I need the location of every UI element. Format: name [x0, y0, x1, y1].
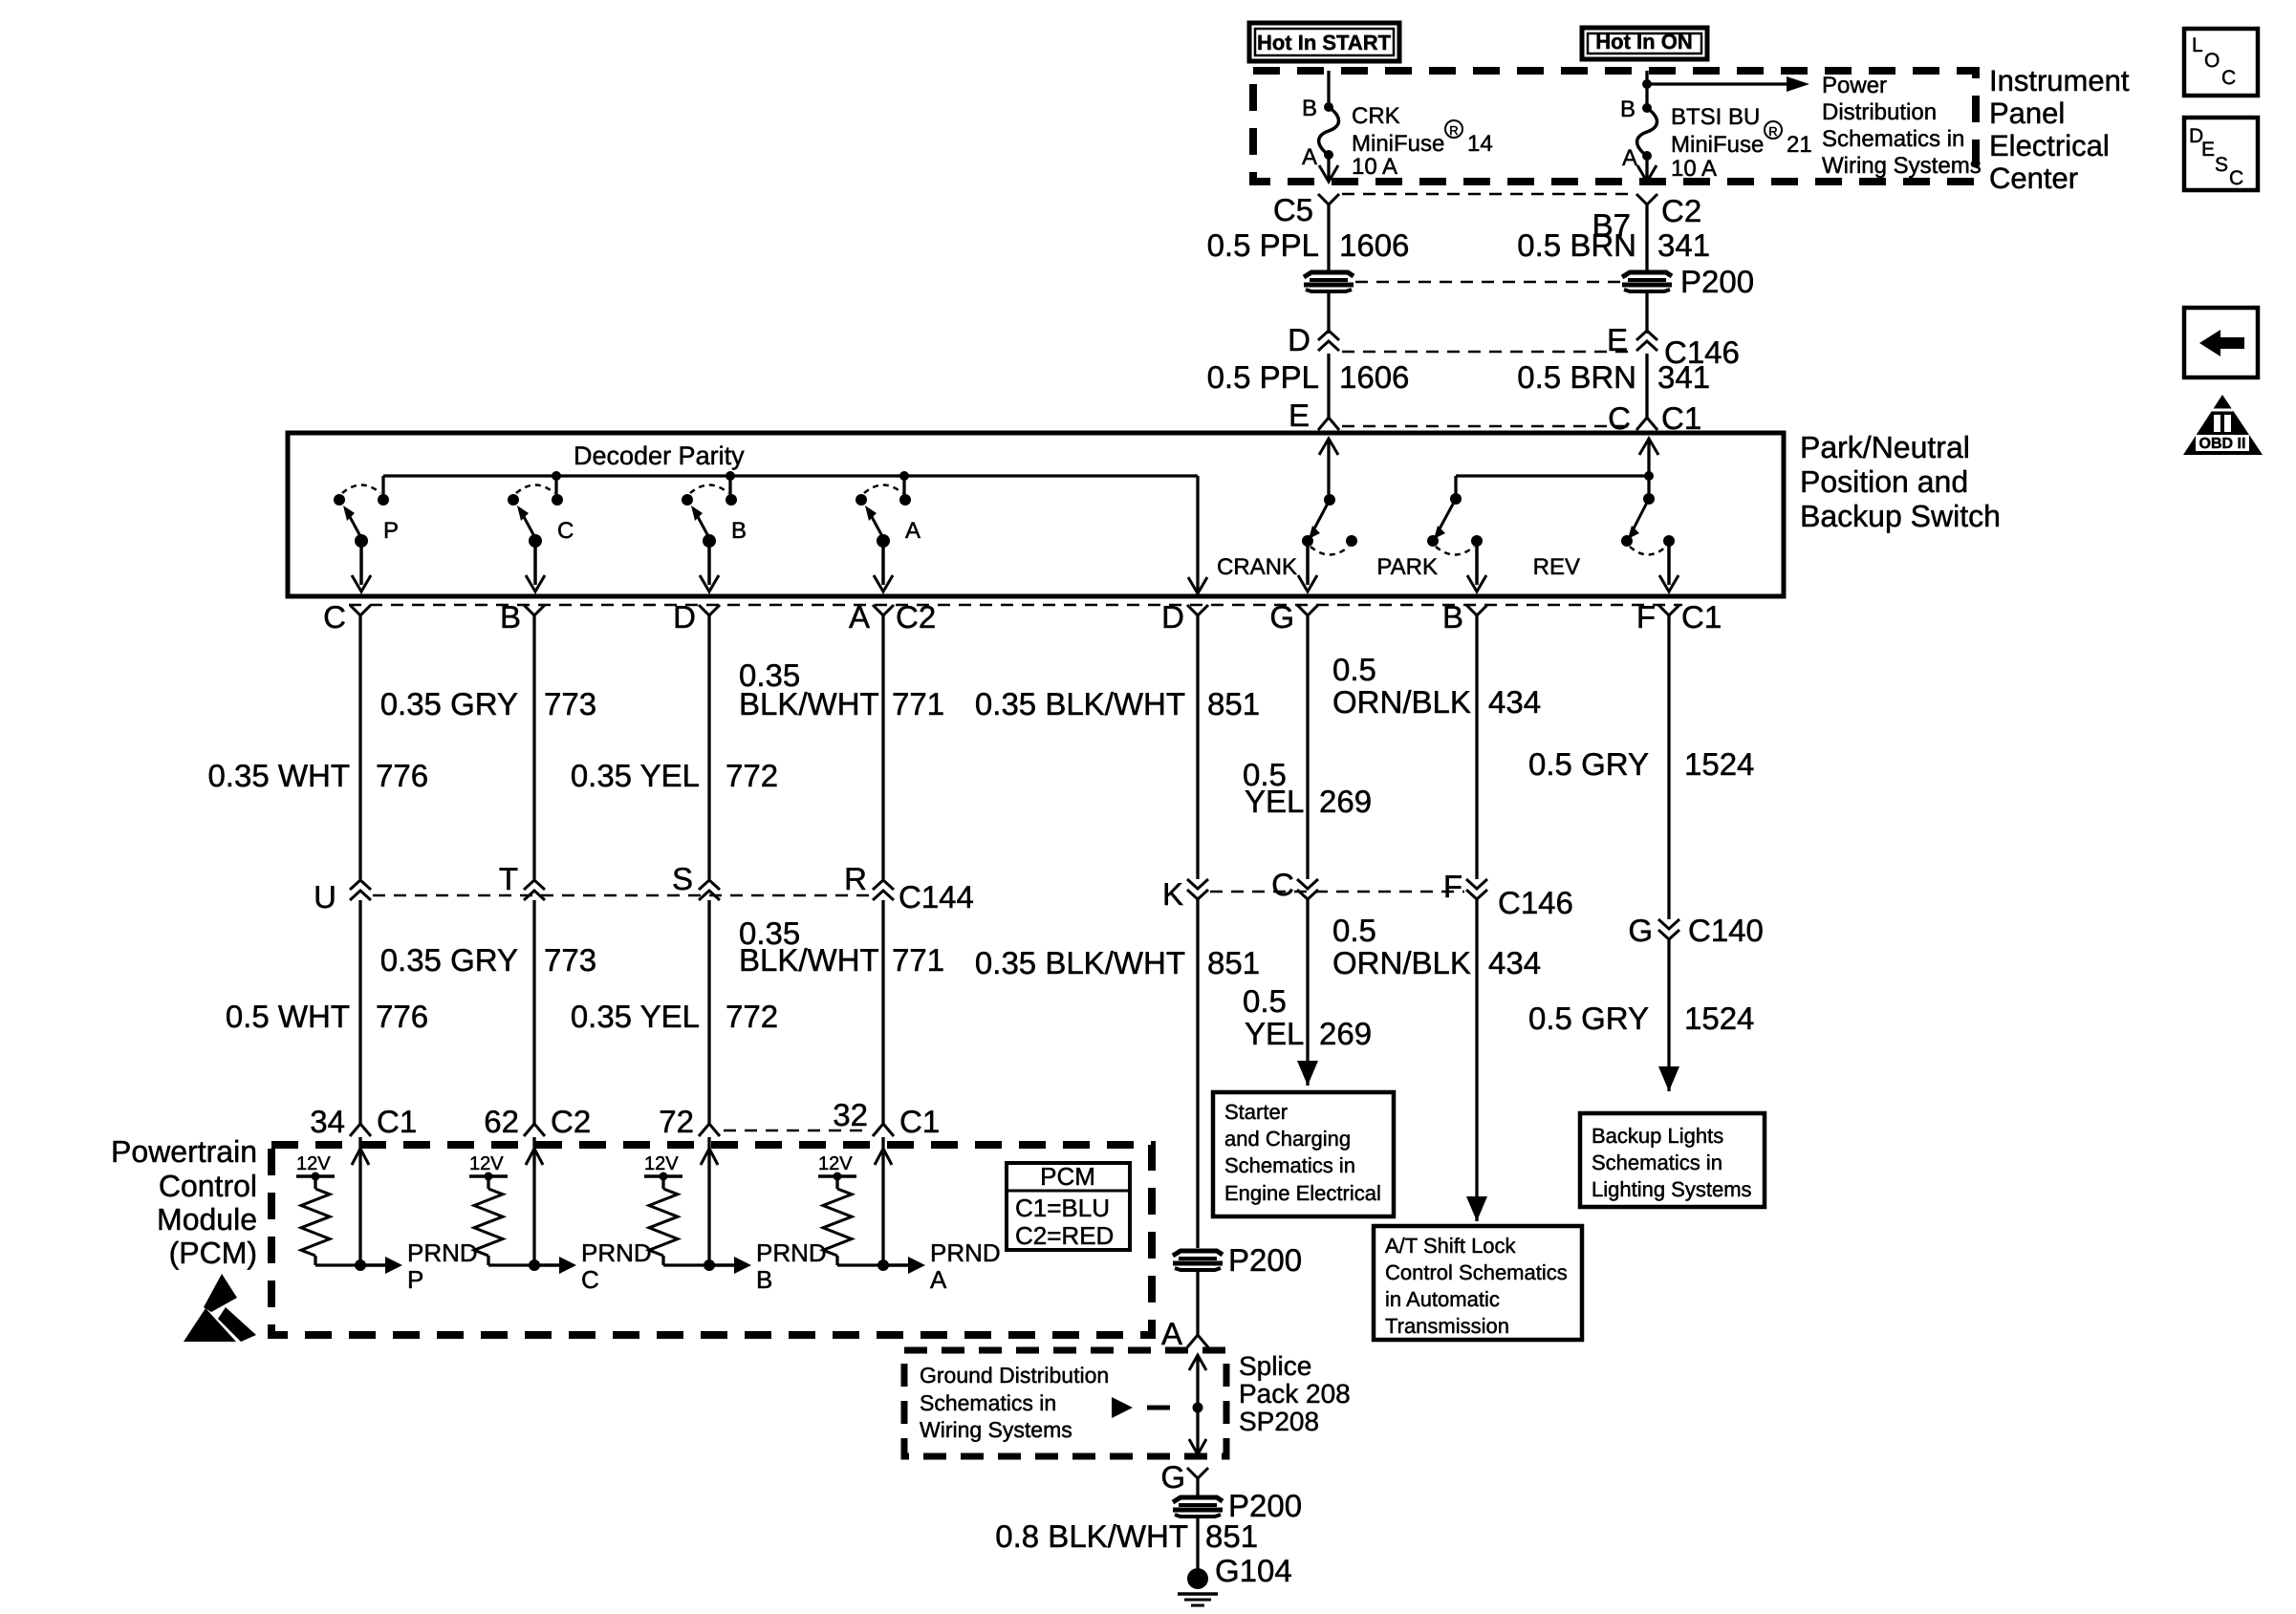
- svg-text:CRK: CRK: [1352, 103, 1400, 129]
- arrow to Power Distribution: [1647, 76, 1809, 92]
- svg-text:1524: 1524: [1684, 746, 1754, 782]
- switch PARK: [1376, 493, 1486, 592]
- svg-text:T: T: [499, 861, 518, 896]
- wire 0.5 BRN 341 upper: [1517, 204, 1710, 270]
- svg-text:C1: C1: [377, 1104, 417, 1139]
- svg-text:851: 851: [1207, 686, 1260, 721]
- svg-text:0.5 GRY: 0.5 GRY: [1528, 746, 1649, 782]
- PCM legend box: [1007, 1162, 1130, 1250]
- wire 0.5 PPL 1606 lower: [1207, 354, 1410, 418]
- svg-text:ORN/BLK: ORN/BLK: [1332, 684, 1471, 720]
- grommet P200 right with label: [1622, 264, 1754, 299]
- wire 0.5 BRN 341 lower: [1517, 354, 1710, 418]
- svg-text:E: E: [1289, 398, 1310, 433]
- svg-text:A: A: [1302, 144, 1317, 170]
- decoder parity bus wire: [383, 476, 1207, 593]
- svg-text:12V: 12V: [818, 1153, 853, 1174]
- wire 0.35 WHT 776 upper: [207, 615, 428, 879]
- svg-text:BTSI BU: BTSI BU: [1671, 104, 1760, 130]
- svg-text:0.5: 0.5: [1332, 913, 1376, 948]
- svg-text:0.5: 0.5: [1243, 983, 1287, 1019]
- grommet P200 bottom: [1173, 1488, 1302, 1523]
- svg-text:C2: C2: [551, 1104, 591, 1139]
- switch CRANK: [1217, 494, 1357, 592]
- PCM input wire and PRND C arrow: [526, 1137, 652, 1294]
- connector row dashed line C2/C1 below box: [349, 604, 1682, 607]
- PCM input wire and PRND A arrow: [875, 1137, 1001, 1294]
- svg-text:and Charging: and Charging: [1224, 1127, 1351, 1151]
- PCM pins dashed segment: [724, 1130, 869, 1132]
- svg-text:0.5 WHT: 0.5 WHT: [226, 999, 350, 1034]
- svg-text:C: C: [557, 518, 574, 544]
- label Powertrain Control Module (PCM): [111, 1134, 257, 1270]
- svg-text:B: B: [756, 1265, 772, 1294]
- svg-text:PRND: PRND: [407, 1238, 478, 1267]
- svg-text:773: 773: [544, 942, 596, 978]
- note Power Distribution Schematics in Wiring Systems: [1822, 73, 1982, 179]
- connector pin B below box: [500, 599, 545, 635]
- svg-text:C1: C1: [1661, 400, 1701, 436]
- svg-text:A/T Shift Lock: A/T Shift Lock: [1385, 1234, 1517, 1258]
- svg-text:C: C: [2221, 67, 2236, 89]
- connector pin F below box: [1636, 599, 1722, 635]
- connector C146 pin F: [1443, 869, 1573, 920]
- ground G104: [1178, 1553, 1292, 1605]
- connector C146 pin E: [1607, 322, 1740, 370]
- svg-text:R: R: [1768, 124, 1777, 139]
- connector C144 pin U: [314, 879, 371, 915]
- power label Hot In ON: [1582, 28, 1707, 59]
- connector C144 row dashed line: [373, 894, 871, 897]
- svg-text:S: S: [2215, 154, 2228, 176]
- svg-text:C1: C1: [1681, 599, 1722, 635]
- svg-text:0.5 PPL: 0.5 PPL: [1207, 359, 1319, 395]
- wire 0.5 ORN/BLK 434 upper: [1332, 615, 1541, 879]
- connector pin D below box: [673, 599, 720, 635]
- svg-text:Backup Lights: Backup Lights: [1592, 1124, 1723, 1148]
- svg-text:P200: P200: [1680, 264, 1754, 299]
- svg-text:Backup Switch: Backup Switch: [1800, 499, 2001, 533]
- label Park/Neutral Position and Backup Switch: [1800, 430, 2001, 533]
- connector C146 pin D: [1288, 322, 1339, 357]
- connector C146 row dashed line (lower): [1210, 891, 1464, 893]
- icon back arrow box: [2184, 308, 2258, 377]
- wire 0.35 GRY 773 upper: [380, 615, 596, 879]
- wire 0.35 BLK/WHT 771 lower: [739, 900, 944, 1124]
- svg-text:G: G: [1269, 599, 1294, 635]
- connector row dashed line C5/C2: [1342, 193, 1634, 196]
- connector C146 pin C: [1271, 867, 1318, 902]
- svg-text:SP208: SP208: [1239, 1407, 1319, 1436]
- svg-text:Schematics in: Schematics in: [1224, 1153, 1355, 1177]
- connector C140 pin G: [1628, 913, 1764, 948]
- svg-text:10 A: 10 A: [1352, 154, 1397, 180]
- svg-text:A: A: [1161, 1316, 1182, 1351]
- svg-text:341: 341: [1657, 227, 1710, 263]
- svg-text:269: 269: [1319, 784, 1372, 819]
- svg-text:12V: 12V: [469, 1153, 504, 1174]
- connector C144 pin S: [672, 861, 720, 900]
- svg-text:Splice: Splice: [1239, 1351, 1311, 1381]
- svg-text:YEL: YEL: [1245, 1016, 1304, 1051]
- wire PPL to C146: [1327, 291, 1330, 334]
- ESD sensitivity symbol: [184, 1274, 256, 1342]
- svg-text:Park/Neutral: Park/Neutral: [1800, 430, 1970, 464]
- svg-text:Panel: Panel: [1989, 97, 2065, 130]
- svg-text:Position and: Position and: [1800, 464, 1968, 499]
- svg-text:Center: Center: [1989, 161, 2078, 195]
- svg-text:0.35 GRY: 0.35 GRY: [380, 686, 518, 721]
- svg-text:Starter: Starter: [1224, 1100, 1288, 1124]
- svg-text:CRANK: CRANK: [1217, 554, 1297, 580]
- reference box Starter and Charging: [1213, 1092, 1394, 1216]
- svg-text:C146: C146: [1498, 885, 1573, 920]
- svg-text:Lighting Systems: Lighting Systems: [1592, 1177, 1752, 1201]
- wire 0.5 YEL 269 lower with arrow to Starter box: [1243, 899, 1372, 1086]
- wire 851 to splice: [1196, 1271, 1199, 1335]
- bus junction node B: [726, 471, 735, 498]
- label Decoder Parity: [574, 441, 745, 470]
- svg-text:Pack 208: Pack 208: [1239, 1379, 1351, 1409]
- connector pin G (below splice): [1160, 1459, 1208, 1496]
- svg-text:D: D: [673, 599, 696, 635]
- svg-text:A: A: [930, 1265, 947, 1294]
- park feed branch: [1456, 471, 1654, 499]
- svg-text:Schematics in: Schematics in: [1592, 1151, 1722, 1174]
- svg-text:72: 72: [659, 1104, 694, 1139]
- svg-text:REV: REV: [1533, 554, 1580, 580]
- svg-text:0.35 YEL: 0.35 YEL: [571, 758, 700, 793]
- svg-text:341: 341: [1657, 359, 1710, 395]
- connector C144 pin T: [499, 861, 545, 900]
- PCM pin 62: [484, 1104, 591, 1139]
- PCM input wire and PRND P arrow: [352, 1137, 478, 1294]
- wire BRN to C146: [1645, 291, 1648, 334]
- svg-text:C2: C2: [896, 599, 936, 635]
- svg-text:B: B: [731, 518, 747, 544]
- icon LOC box: [2184, 29, 2258, 96]
- svg-text:C1: C1: [899, 1104, 940, 1139]
- svg-text:434: 434: [1488, 945, 1541, 980]
- grommet P200 on 851 wire: [1173, 1242, 1302, 1278]
- switch B (decoder parity): [682, 485, 747, 592]
- connector pin C below box: [323, 599, 371, 635]
- svg-text:0.5 BRN: 0.5 BRN: [1517, 227, 1636, 263]
- svg-text:Module: Module: [157, 1202, 257, 1237]
- svg-text:OBD II: OBD II: [2199, 436, 2246, 452]
- svg-text:Power: Power: [1822, 73, 1887, 98]
- connector pin A below box: [849, 599, 936, 635]
- connector pin B below box: [1442, 599, 1487, 635]
- svg-text:R: R: [844, 861, 867, 896]
- svg-text:Engine Electrical: Engine Electrical: [1224, 1181, 1381, 1205]
- svg-text:C2: C2: [1661, 193, 1701, 228]
- svg-text:269: 269: [1319, 1016, 1372, 1051]
- svg-text:1606: 1606: [1339, 359, 1409, 395]
- PCM pull-up 12V resistor for PRND C: [469, 1153, 534, 1265]
- svg-text:Wiring Systems: Wiring Systems: [920, 1417, 1072, 1442]
- svg-text:773: 773: [544, 686, 596, 721]
- svg-text:C: C: [1608, 400, 1631, 436]
- PCM pull-up 12V resistor for PRND P: [296, 1153, 360, 1265]
- svg-text:771: 771: [892, 942, 944, 978]
- svg-text:MiniFuse: MiniFuse: [1671, 132, 1764, 158]
- switch A (decoder parity): [856, 485, 921, 592]
- PCM pull-up 12V resistor for PRND B: [644, 1153, 709, 1265]
- svg-text:BLK/WHT: BLK/WHT: [739, 686, 879, 721]
- svg-text:0.35 BLK/WHT: 0.35 BLK/WHT: [975, 686, 1185, 721]
- wire C1 into box (rev feed): [1639, 439, 1658, 499]
- svg-text:Control: Control: [159, 1169, 257, 1203]
- wire from Hot In ON into fuse block: [1642, 71, 1652, 108]
- wire 0.5 ORN/BLK 434 lower with arrow to A/T box: [1332, 899, 1541, 1221]
- svg-text:B: B: [1442, 599, 1463, 635]
- PCM pin 72: [659, 1104, 720, 1139]
- svg-text:0.8 BLK/WHT: 0.8 BLK/WHT: [995, 1518, 1188, 1554]
- connector C1 pin E: [1289, 398, 1339, 433]
- wire 0.5 YEL 269 upper: [1243, 615, 1372, 879]
- svg-text:E: E: [2201, 139, 2215, 161]
- Ground Distribution dashed box: [904, 1350, 1226, 1456]
- svg-text:K: K: [1162, 876, 1183, 912]
- svg-text:MiniFuse: MiniFuse: [1352, 131, 1444, 157]
- svg-text:PRND: PRND: [930, 1238, 1001, 1267]
- ground distribution pointer: [1112, 1397, 1170, 1418]
- bus junction node C: [552, 471, 561, 498]
- PCM pin 32: [833, 1097, 940, 1139]
- svg-text:PRND: PRND: [581, 1238, 652, 1267]
- connector pin D below box: [1161, 599, 1208, 635]
- wire 0.35 GRY 773 lower: [380, 900, 596, 1124]
- svg-text:0.35 WHT: 0.35 WHT: [207, 758, 350, 793]
- svg-text:851: 851: [1207, 945, 1260, 980]
- connector row dashed line C1: [1342, 425, 1634, 428]
- wire 0.35 BLK/WHT 771 upper: [739, 615, 944, 879]
- Powertrain Control Module dashed box: [271, 1145, 1152, 1335]
- connector pin A (splice): [1161, 1316, 1208, 1351]
- svg-text:Schematics in: Schematics in: [1822, 126, 1964, 152]
- wire 0.35 YEL 772 upper: [571, 615, 778, 879]
- svg-text:14: 14: [1467, 131, 1493, 157]
- svg-text:10 A: 10 A: [1671, 156, 1717, 182]
- svg-text:F: F: [1443, 869, 1462, 904]
- connector C144 pin R: [844, 861, 974, 915]
- svg-text:C: C: [2229, 167, 2243, 189]
- connector C1 pin C: [1608, 400, 1701, 436]
- power label Hot In START: [1249, 23, 1399, 61]
- svg-text:PRND: PRND: [756, 1238, 827, 1267]
- wire 0.35 YEL 772 lower: [571, 900, 778, 1124]
- wire 0.5 GRY 1524 lower with arrow to Backup box: [1528, 939, 1754, 1091]
- svg-text:G104: G104: [1215, 1553, 1292, 1588]
- label Instrument Panel Electrical Center: [1989, 64, 2130, 195]
- switch REV: [1533, 493, 1679, 592]
- wire 0.35 BLK/WHT 851 lower: [975, 899, 1260, 1248]
- icon OBD II triangle: [2183, 395, 2263, 455]
- svg-text:G: G: [1628, 913, 1653, 948]
- svg-text:C5: C5: [1273, 192, 1313, 227]
- svg-text:Electrical: Electrical: [1989, 129, 2110, 162]
- svg-text:851: 851: [1205, 1518, 1258, 1554]
- svg-text:PARK: PARK: [1376, 554, 1438, 580]
- svg-text:0.35 YEL: 0.35 YEL: [571, 999, 700, 1034]
- svg-text:776: 776: [376, 999, 428, 1034]
- svg-text:D: D: [1161, 599, 1184, 635]
- note Ground Distribution Schematics in Wiring Systems: [920, 1363, 1109, 1442]
- svg-text:Powertrain: Powertrain: [111, 1134, 257, 1169]
- switch C (decoder parity): [508, 485, 574, 592]
- svg-text:PCM: PCM: [1040, 1162, 1095, 1191]
- svg-text:772: 772: [726, 999, 778, 1034]
- wire from Hot In START into fuse block: [1327, 71, 1330, 107]
- svg-text:C144: C144: [899, 879, 974, 915]
- svg-text:1524: 1524: [1684, 1001, 1754, 1036]
- PCM input wire and PRND B arrow: [701, 1137, 827, 1294]
- svg-text:0.5 BRN: 0.5 BRN: [1517, 359, 1636, 395]
- svg-text:32: 32: [833, 1097, 868, 1132]
- svg-text:YEL: YEL: [1245, 784, 1304, 819]
- bus junction node A: [899, 471, 909, 498]
- svg-text:P: P: [383, 518, 399, 544]
- svg-text:BLK/WHT: BLK/WHT: [739, 942, 879, 978]
- svg-text:L: L: [2192, 34, 2203, 56]
- svg-text:C: C: [581, 1265, 599, 1294]
- PCM pull-up 12V resistor for PRND A: [818, 1153, 883, 1265]
- svg-text:S: S: [672, 861, 693, 896]
- svg-text:Wiring Systems: Wiring Systems: [1822, 153, 1982, 179]
- wire 0.5 GRY 1524 upper: [1528, 615, 1754, 919]
- svg-text:12V: 12V: [296, 1153, 331, 1174]
- svg-text:C: C: [323, 599, 346, 635]
- svg-text:0.35 GRY: 0.35 GRY: [380, 942, 518, 978]
- connector pin G below box: [1269, 599, 1318, 635]
- icon DESC box: [2184, 118, 2258, 190]
- svg-text:12V: 12V: [644, 1153, 679, 1174]
- svg-text:G: G: [1160, 1459, 1185, 1495]
- svg-text:Hot In ON: Hot In ON: [1595, 30, 1692, 54]
- svg-text:A: A: [1622, 145, 1637, 171]
- wire fuse CRK output with arrow: [1319, 155, 1338, 182]
- svg-text:Schematics in: Schematics in: [920, 1390, 1056, 1415]
- svg-text:776: 776: [376, 758, 428, 793]
- svg-text:D: D: [1288, 322, 1310, 357]
- Park/Neutral Position and Backup Switch box: [288, 433, 1784, 596]
- svg-text:C: C: [1271, 867, 1294, 902]
- svg-text:ORN/BLK: ORN/BLK: [1332, 945, 1471, 980]
- svg-text:1606: 1606: [1339, 227, 1409, 263]
- svg-text:C140: C140: [1688, 913, 1764, 948]
- reference box Backup Lights: [1580, 1113, 1765, 1207]
- wire 0.5 PPL 1606 upper: [1207, 204, 1410, 270]
- svg-text:0.5: 0.5: [1332, 652, 1376, 687]
- svg-text:O: O: [2204, 50, 2220, 72]
- svg-text:Distribution: Distribution: [1822, 99, 1937, 125]
- svg-text:U: U: [314, 879, 336, 915]
- svg-text:62: 62: [484, 1104, 519, 1139]
- svg-text:A: A: [905, 518, 921, 544]
- grommet P200 left: [1304, 272, 1354, 291]
- connector C2 pin B7: [1592, 193, 1702, 243]
- fuse CRK MiniFuse 14 10A: [1302, 96, 1493, 180]
- wire 0.35 BLK/WHT 851 upper: [975, 615, 1260, 879]
- svg-text:P: P: [407, 1265, 423, 1294]
- PCM pin 34: [310, 1104, 417, 1139]
- svg-text:34: 34: [310, 1104, 345, 1139]
- dashed tie line P200: [1355, 281, 1620, 284]
- svg-text:F: F: [1636, 599, 1656, 635]
- svg-text:Transmission: Transmission: [1385, 1314, 1509, 1338]
- wire E into box (crank feed): [1319, 439, 1338, 500]
- svg-text:0.5 PPL: 0.5 PPL: [1207, 227, 1319, 263]
- svg-text:Decoder Parity: Decoder Parity: [574, 441, 745, 470]
- svg-text:P200: P200: [1228, 1242, 1302, 1278]
- bus stub to switch P: [381, 476, 384, 498]
- wire fuse BTSI output with arrow: [1637, 156, 1657, 182]
- fuse BTSI BU MiniFuse 21 10A: [1620, 97, 1812, 182]
- Instrument Panel Electrical Center dashed box: [1253, 71, 1976, 182]
- label Splice Pack 208 SP208: [1239, 1351, 1351, 1436]
- svg-text:R: R: [1449, 123, 1458, 138]
- connector row dashed line C146: [1342, 351, 1634, 354]
- switch P (decoder parity): [334, 485, 399, 592]
- svg-text:in Automatic: in Automatic: [1385, 1287, 1500, 1311]
- svg-text:C1=BLU: C1=BLU: [1015, 1194, 1110, 1222]
- svg-text:A: A: [849, 599, 870, 635]
- svg-text:21: 21: [1787, 132, 1812, 158]
- svg-text:Control Schematics: Control Schematics: [1385, 1260, 1568, 1284]
- svg-text:B: B: [1302, 96, 1317, 121]
- svg-text:B: B: [500, 599, 521, 635]
- reference box A/T Shift Lock: [1374, 1226, 1582, 1340]
- svg-text:Instrument: Instrument: [1989, 64, 2130, 97]
- svg-text:434: 434: [1488, 684, 1541, 720]
- svg-text:(PCM): (PCM): [169, 1236, 257, 1270]
- svg-text:772: 772: [726, 758, 778, 793]
- wire 0.5 WHT 776 lower: [226, 900, 428, 1124]
- svg-text:B: B: [1620, 97, 1635, 122]
- splice pack SP208 wire: [1189, 1355, 1206, 1454]
- connector C146 pin K: [1162, 876, 1208, 912]
- svg-text:0.35 BLK/WHT: 0.35 BLK/WHT: [975, 945, 1185, 980]
- connector C5 (fuse block to harness): [1273, 192, 1339, 227]
- svg-text:Hot In START: Hot In START: [1257, 31, 1392, 54]
- svg-text:771: 771: [892, 686, 944, 721]
- wire 0.8 BLK/WHT 851: [995, 1517, 1258, 1569]
- svg-text:0.5 GRY: 0.5 GRY: [1528, 1001, 1649, 1036]
- svg-text:Ground Distribution: Ground Distribution: [920, 1363, 1109, 1388]
- svg-text:C2=RED: C2=RED: [1015, 1221, 1114, 1250]
